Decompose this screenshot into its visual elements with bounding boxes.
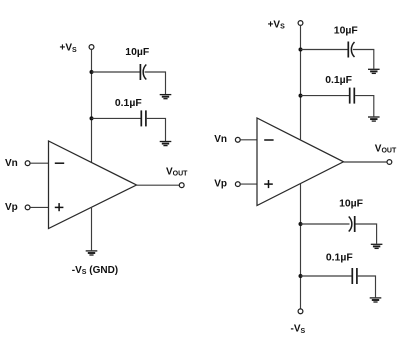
wire C4 to ground (right top) (355, 96, 374, 117)
label VOUT (right) (375, 143, 397, 154)
op-amp U1 (left triangle) (49, 141, 137, 229)
terminal VOUT (right) (387, 160, 392, 165)
wire J5 to C5 (right bottom) (301, 223, 350, 225)
terminal +Vs (right) (298, 21, 303, 26)
value label 10uF (left) (125, 47, 149, 58)
wire C3 to ground (right top) (353, 50, 374, 69)
label -Vs (GND) (72, 265, 118, 276)
svg-text:+VS: +VS (60, 43, 78, 54)
label Vn (right) (214, 134, 227, 145)
pin + (U1 non-inverting input) (55, 203, 64, 211)
ground G3 (U1 -Vs GND) (86, 251, 98, 255)
terminal Vn (right) (235, 137, 240, 142)
wire -Vs vertical rail (right) (300, 184, 302, 309)
ground G7 (right bottom 0.1uF) (370, 298, 382, 302)
terminal -Vs (right) (298, 309, 303, 314)
svg-text:Vn: Vn (5, 158, 18, 169)
svg-text:0.1µF: 0.1µF (326, 252, 353, 263)
wire J3 to C3 (right top) (301, 49, 348, 51)
capacitor C2 0.1uF (left) (141, 110, 146, 126)
ground G4 (right top 10uF) (368, 69, 380, 73)
svg-text:Vn: Vn (214, 134, 227, 145)
terminal +Vs (left) (89, 45, 94, 50)
value label 10uF (right top) (334, 25, 358, 36)
node junction J3 (right top, 10uF tap) (299, 48, 303, 52)
wire +Vs vertical rail (left) (91, 50, 93, 163)
node junction J6 (right bottom, 0.1uF tap) (299, 274, 303, 278)
svg-text:Vp: Vp (214, 178, 227, 189)
ground G6 (right bottom 10uF) (371, 244, 383, 248)
wire +Vs vertical rail (right) (300, 26, 302, 140)
node junction J1 (left, 10uF tap) (90, 70, 94, 74)
wire J1 to C1 (left) (92, 71, 140, 73)
pin - (U2 inverting input) (264, 139, 273, 141)
capacitor C1 10uF (left, polarized) (140, 64, 146, 80)
ground G2 (left 0.1uF) (160, 142, 172, 146)
terminal Vp (left) (25, 205, 30, 210)
wire C6 to ground (right bottom) (358, 276, 376, 297)
wire C1 to ground (left) (145, 72, 166, 94)
wire J6 to C6 (right bottom) (301, 275, 352, 277)
wire J2 to C2 (left) (92, 117, 141, 119)
svg-text:VOUT: VOUT (375, 143, 397, 154)
capacitor C6 0.1uF (right bottom) (352, 268, 357, 284)
wire Vn input (left) (30, 162, 48, 164)
node junction J2 (left, 0.1uF tap) (90, 116, 94, 120)
svg-text:10µF: 10µF (334, 25, 358, 36)
wire U2 output (right) (344, 161, 387, 163)
svg-text:Vp: Vp (5, 202, 18, 213)
ground G5 (right top 0.1uF) (368, 117, 380, 121)
pin + (U2 non-inverting input) (264, 180, 273, 188)
capacitor C4 0.1uF (right top) (350, 88, 355, 104)
wire Vp input (right) (240, 183, 257, 185)
label +Vs (right) (268, 19, 286, 30)
svg-text:10µF: 10µF (125, 47, 149, 58)
wire Vp input (left) (30, 206, 48, 208)
svg-text:+VS: +VS (268, 19, 286, 30)
wire C5 to ground (right bottom) (356, 224, 377, 244)
op-amp U2 (right triangle) (257, 118, 344, 206)
node junction J5 (right bottom, 10uF tap) (299, 222, 303, 226)
wire C2 to ground (left) (147, 118, 166, 141)
terminal VOUT (left) (179, 183, 184, 188)
terminal Vp (right) (235, 182, 240, 187)
label -Vs (right) (291, 324, 306, 335)
value label 10uF (right bottom) (339, 199, 363, 210)
label Vp (left) (5, 202, 18, 213)
svg-text:0.1µF: 0.1µF (325, 75, 352, 86)
svg-text:0.1µF: 0.1µF (115, 98, 142, 109)
pin - (U1 inverting input) (55, 162, 64, 164)
wire Vn input (right) (240, 139, 257, 141)
label VOUT (left) (166, 167, 188, 178)
value label 0.1uF (right top) (325, 75, 352, 86)
capacitor C3 10uF (right top, polarized) (348, 42, 354, 58)
svg-text:10µF: 10µF (339, 199, 363, 210)
svg-text:-VS: -VS (291, 324, 306, 335)
wire U1 negative supply to ground (left) (91, 207, 93, 250)
terminal Vn (left) (25, 161, 30, 166)
node junction J4 (right top, 0.1uF tap) (299, 94, 303, 98)
wire J4 to C4 (right top) (301, 95, 350, 97)
ground G1 (left 10uF) (160, 95, 172, 99)
label Vn (left) (5, 158, 18, 169)
label +Vs (left) (60, 43, 78, 54)
capacitor C5 10uF (right bottom, polarized, reversed) (349, 216, 355, 232)
wire U1 output (left) (137, 184, 180, 186)
label Vp (right) (214, 178, 227, 189)
svg-text:VOUT: VOUT (166, 167, 188, 178)
svg-text:-VS (GND): -VS (GND) (72, 265, 118, 276)
value label 0.1uF (right bottom) (326, 252, 353, 263)
value label 0.1uF (left) (115, 98, 142, 109)
